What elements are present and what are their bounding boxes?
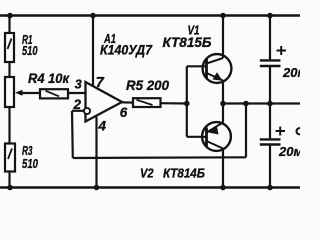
wire base node vertical (186, 66, 188, 137)
wire pin2 down (71, 111, 74, 158)
op-amp U1 triangle (86, 82, 123, 122)
svg-text:20мк: 20мк (278, 144, 300, 159)
wire to V2 base (187, 136, 207, 138)
wire top supply rail (0, 14, 300, 17)
wire cap column top (269, 16, 271, 60)
wire V2 collector to bottom rail (222, 149, 224, 188)
junction base node (184, 101, 190, 107)
junction bottom rail V2 collector (220, 185, 226, 191)
svg-text:КТ815Б: КТ815Б (163, 35, 212, 50)
wire R1 to R4 (8, 62, 10, 77)
svg-text:3: 3 (75, 78, 82, 92)
junction bottom rail left (7, 185, 13, 191)
partial glyph at right edge (cut-off designator) (297, 128, 301, 135)
svg-text:КТ814Б: КТ814Б (163, 165, 205, 180)
svg-text:V2: V2 (140, 167, 154, 181)
wire R4 box to pin3 (68, 92, 86, 94)
junction bottom rail cap column (267, 185, 273, 191)
resistor R5 (133, 98, 161, 107)
resistor R1 (5, 33, 14, 62)
junction emitters (220, 101, 226, 107)
svg-text:20мк: 20мк (282, 65, 300, 80)
svg-text:4: 4 (98, 118, 107, 133)
svg-text:510: 510 (22, 43, 38, 58)
wire op-amp pin4 to bottom rail (95, 117, 97, 188)
junction feedback tap (243, 101, 249, 107)
wire cap column C2 to bottom rail (269, 146, 271, 188)
wire to V1 base (187, 65, 207, 67)
wire cap column C1 to output (269, 67, 271, 104)
svg-text:R5 200: R5 200 (126, 77, 169, 93)
junction top rail pin7 (90, 13, 96, 19)
wire pin2 stub (72, 110, 84, 112)
wire feedback horizontal (73, 156, 246, 159)
svg-text:К140УД7: К140УД7 (100, 42, 153, 57)
wire R3 to bottom rail (8, 172, 10, 188)
capacitor C2 (260, 139, 281, 144)
wire output line (223, 102, 300, 104)
wire wiper to R4 box (21, 92, 40, 94)
transistor V2 emitter arrowhead (208, 127, 219, 135)
svg-text:2: 2 (73, 97, 82, 112)
wire op-amp output to R5 (121, 101, 133, 103)
wire feedback up to output (245, 104, 247, 158)
wire R5 to base node (161, 102, 187, 105)
wire bottom supply rail (0, 186, 300, 189)
op-amp inverting input bubble (84, 108, 90, 114)
svg-text:R4 10к: R4 10к (28, 71, 70, 86)
svg-text:7: 7 (96, 75, 105, 91)
resistor R4 wiper box (40, 89, 68, 98)
wire left rail top segment (8, 16, 10, 34)
transistor V1 (203, 54, 232, 83)
potentiometer R4 wiper arrow (15, 90, 23, 96)
junction bottom rail pin4 (94, 185, 100, 191)
wire V1 emitter down (222, 81, 224, 104)
capacitor C1 plus sign (277, 46, 287, 55)
resistor R3 (5, 144, 15, 172)
junction output cap column (267, 101, 273, 107)
wire V1 collector to top rail (222, 16, 224, 59)
junction top rail left (7, 13, 13, 19)
wire V2 emitter up (222, 104, 224, 123)
svg-text:6: 6 (120, 105, 128, 120)
capacitor C2 plus sign (276, 127, 286, 136)
junction top rail cap column (267, 13, 273, 19)
junction top rail V1 collector (220, 13, 226, 19)
capacitor C1 (260, 60, 281, 66)
potentiometer R4 body (5, 77, 14, 107)
transistor V2 (202, 122, 231, 151)
wire R4 to R3 (8, 107, 10, 144)
transistor V1 emitter arrowhead (213, 72, 223, 81)
wire op-amp pin7 to top rail (92, 16, 94, 87)
wire cap column output to C2 (269, 104, 271, 139)
svg-text:510: 510 (22, 156, 39, 171)
